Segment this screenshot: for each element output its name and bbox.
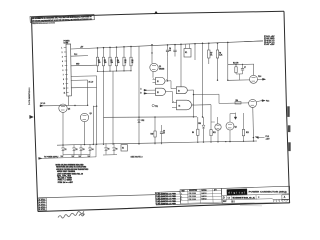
resistor R12 body	[242, 129, 244, 135]
svg-text:R8: R8	[219, 52, 221, 54]
svg-text:E2: E2	[157, 92, 159, 94]
zener D4 stub	[89, 145, 91, 148]
rev table row line 1	[38, 199, 46, 201]
resistor network bottom rail	[98, 70, 132, 73]
qty table column x200.0	[199, 189, 202, 203]
svg-text:POWER CONNECTOR (SEQ): POWER CONNECTOR (SEQ)	[249, 192, 287, 194]
qty table column x212.5	[212, 189, 215, 203]
gate E4 inputs	[172, 102, 177, 104]
junction dots y117	[138, 117, 139, 118]
rev table outline	[38, 198, 47, 211]
resistor R7 wires	[208, 43, 210, 50]
transistor Q2	[215, 124, 221, 130]
svg-text:CR2: CR2	[141, 120, 144, 122]
transistor Q3 collector	[229, 114, 231, 122]
resistor R11 wire	[210, 136, 212, 142]
svg-text:R11: R11	[213, 132, 216, 134]
svg-text:t: t	[239, 190, 240, 194]
resistor R11 body	[210, 130, 212, 136]
zone mark 1	[287, 106, 290, 117]
pencil faint line	[240, 205, 262, 207]
DEC digital logo	[227, 189, 247, 196]
top center fold mark	[154, 11, 157, 14]
parts table row 2	[156, 196, 181, 197]
qty table column x187.5	[187, 190, 190, 204]
left border fold mark	[30, 115, 34, 118]
resistor R14 inline	[235, 102, 241, 104]
resistor R13	[235, 65, 237, 67]
resistor R9 wires	[197, 117, 199, 129]
svg-text:DESCRIPTION: DESCRIPTION	[189, 190, 197, 192]
diode CR2 on x139	[138, 47, 140, 146]
supply arrow near Q3	[235, 113, 237, 117]
connector J1 pin 8	[65, 78, 68, 80]
qty table row line 3	[180, 199, 221, 200]
vertical drop x103	[103, 71, 105, 144]
transistor Q3 emitter	[229, 130, 231, 142]
ground rail junction x113	[112, 143, 113, 144]
wire to pin list	[244, 40, 263, 43]
svg-text:R2: R2	[104, 60, 106, 62]
svg-text:R9: R9	[192, 132, 194, 134]
qty table row line 4	[180, 202, 221, 203]
zener D3 stub	[80, 145, 82, 148]
ground rail junction x96.6	[96, 144, 97, 145]
parts table row 1	[156, 194, 181, 195]
node 385 arrow	[255, 137, 258, 139]
rc tie drop	[239, 74, 241, 80]
component box X1	[121, 145, 127, 151]
transistor Q5 emitter drop	[62, 112, 64, 144]
svg-text:R3: R3	[110, 60, 112, 62]
zone mark 2	[288, 125, 291, 132]
ground rail junction x161.5	[161, 142, 162, 143]
ground rail junction x203.5	[203, 141, 204, 142]
parts table inner column	[158, 192, 161, 205]
q5q6 link	[93, 105, 96, 107]
scale ruler ticks	[272, 200, 274, 203]
svg-text:QTY: QTY	[214, 190, 217, 192]
lower frame line	[38, 195, 155, 198]
junction dots on input wire	[74, 105, 75, 106]
connector J1 pin 10	[66, 87, 69, 89]
resistor R1 body	[96, 57, 98, 66]
transistor Q4 collector	[253, 64, 255, 75]
gate E2 input arrows	[144, 89, 147, 91]
svg-text:R1: R1	[98, 60, 100, 62]
transistor Q6 emitter drop	[84, 122, 86, 144]
svg-text:SEE NOTE 3: SEE NOTE 3	[131, 157, 143, 159]
junction on resistor rail	[103, 71, 104, 72]
loop bottom wire	[228, 79, 250, 81]
connector J1 pin 9	[66, 83, 69, 85]
wire pin6 drop	[96, 87, 98, 106]
wire pin5 horiz	[71, 79, 88, 81]
resistor R1 bottom wire	[97, 66, 99, 71]
wire pin2 stub	[71, 55, 88, 58]
transistor Q7 emitter drop	[252, 107, 255, 141]
transistor Q2 base wire	[211, 121, 215, 123]
svg-text:P2-07 +15V: P2-07 +15V	[264, 44, 276, 46]
border right	[284, 11, 290, 203]
zener D2 bottom	[73, 151, 75, 155]
svg-text:11: 11	[64, 92, 66, 94]
input arrow left	[40, 105, 43, 107]
svg-text:D-CS-5408732-0-1: D-CS-5408732-0-1	[28, 87, 31, 105]
svg-text:E3: E3	[178, 90, 180, 92]
resistor R3 bottom wire	[109, 66, 111, 71]
ground rail junction x211	[210, 141, 211, 142]
svg-text:R7: R7	[210, 52, 212, 54]
connector J1 pin 6	[65, 69, 68, 71]
drop x211 to R9	[210, 105, 212, 130]
diode D5	[105, 143, 107, 147]
junction on resistor rail	[130, 70, 131, 71]
svg-text:Q1: Q1	[159, 66, 161, 68]
Q1 emitter drop	[152, 72, 154, 78]
transistor Q5	[59, 104, 67, 112]
zener D4 symbol	[89, 148, 92, 151]
svg-text:D5: D5	[108, 149, 110, 151]
resistor R6 top wire	[130, 46, 132, 57]
drop x227 from bus	[227, 42, 229, 64]
capacitor C4 plates	[166, 49, 169, 51]
svg-text:PIN 14 = +5V: PIN 14 = +5V	[58, 181, 74, 184]
transistor Q1	[150, 63, 158, 71]
mid wire y117	[104, 116, 198, 119]
svg-text:10: 10	[163, 133, 165, 135]
wire pin4 drop	[96, 76, 98, 88]
svg-text:750: 750	[98, 62, 101, 64]
svg-text:R5: R5	[124, 60, 126, 62]
transistor Q2 emitter	[217, 130, 219, 141]
svg-text:7: 7	[63, 74, 64, 76]
relay K1 box	[184, 49, 191, 58]
svg-text:Q5: Q5	[68, 109, 70, 111]
vertical drop x202	[202, 43, 204, 117]
junction dot x217 y80	[217, 80, 218, 81]
resistor R12 wires	[243, 113, 245, 129]
gate E1 output	[165, 80, 171, 82]
title block outline	[221, 186, 289, 203]
svg-text:PWR CONN: PWR CONN	[189, 196, 196, 198]
resistor R5 body	[123, 57, 125, 66]
loop left wire	[227, 65, 229, 81]
gate E2 body	[156, 88, 166, 95]
svg-text:P1-2: P1-2	[74, 54, 77, 56]
ground rail	[57, 141, 257, 145]
svg-text:C6: C6	[163, 130, 165, 132]
ground rail junction x230	[229, 141, 230, 142]
+5V bus wire	[71, 41, 263, 49]
svg-text:TP1: TP1	[155, 106, 158, 108]
vertical drop x195	[194, 44, 196, 60]
resistor R2 bottom wire	[103, 66, 105, 71]
transistor Q7	[249, 99, 257, 107]
vertical drop x93	[92, 106, 94, 144]
resistor R7 body	[208, 50, 210, 58]
wire pin6 horiz	[71, 86, 97, 88]
svg-text:D3: D3	[83, 149, 85, 151]
svg-text:750: 750	[117, 62, 120, 64]
svg-text:9: 9	[63, 83, 64, 85]
resistor R4 bottom wire	[116, 66, 118, 71]
border bottom	[38, 203, 290, 212]
vertical drop x181	[180, 44, 182, 86]
svg-text:A: A	[284, 196, 286, 199]
connector J1 pin 4	[64, 60, 67, 62]
ground rail junction x218	[217, 141, 218, 142]
scale ruler baseline	[273, 198, 290, 200]
zener D1 stub	[62, 145, 64, 148]
zener D1 symbol	[62, 148, 65, 151]
resistor R3 body	[109, 57, 111, 66]
rc pair bottom tie	[236, 73, 243, 75]
gate E2 output	[166, 91, 173, 93]
cap drop to gate1 node	[167, 57, 169, 81]
svg-text:PWR CONN: PWR CONN	[189, 193, 196, 195]
svg-text:Q6: Q6	[90, 113, 92, 115]
lower rail segment	[103, 154, 117, 156]
svg-text:750: 750	[104, 62, 107, 64]
svg-text:C7: C7	[244, 67, 246, 69]
ground rail junction x243.5	[243, 141, 244, 142]
qty table header line	[180, 191, 221, 192]
svg-text:P2-8: P2-8	[258, 76, 261, 78]
drop x96 to arrow line	[95, 144, 97, 157]
rev table row line 3	[38, 204, 46, 206]
wire y94 branch	[194, 93, 220, 95]
svg-text:DIST: DIST	[223, 201, 227, 203]
resistor R3 top wire	[109, 47, 111, 57]
resistor R5 bottom wire	[123, 66, 125, 71]
resistor R9 body	[197, 129, 199, 135]
wire pin3 gnd	[71, 64, 96, 67]
qty table outline	[180, 188, 222, 204]
parts table row 3	[156, 199, 181, 200]
zone mark 3	[288, 142, 291, 151]
ground rail junction x197.8	[197, 142, 198, 143]
resistor R4 top wire	[116, 47, 118, 57]
svg-text:| | | | |: | | | | |	[231, 201, 235, 203]
svg-text:K1: K1	[185, 52, 187, 54]
svg-text:.01: .01	[169, 50, 171, 52]
note box N1 outline	[30, 14, 94, 22]
transistor Q4 output arrow	[258, 78, 263, 80]
qty table row line 1	[180, 193, 221, 194]
resistor R8 wires	[217, 43, 219, 50]
gate E3 output	[187, 89, 193, 91]
resistor R6 bottom wire	[130, 66, 132, 71]
ground rail junction x103.5	[103, 144, 104, 145]
zener D2 stub	[73, 145, 75, 148]
svg-text:D2: D2	[76, 149, 78, 151]
pencil note	[58, 211, 84, 218]
resistor R10 on x155	[154, 117, 156, 131]
resistor R8 body	[216, 50, 218, 58]
svg-text:R10: R10	[151, 134, 154, 136]
arrow to power supply	[39, 157, 42, 159]
ground rail junction x93.3	[93, 144, 94, 145]
capacitor C5 bottom	[174, 52, 176, 57]
gate E4 output	[192, 104, 212, 106]
border top	[32, 11, 285, 17]
junction on resistor rail	[116, 70, 117, 71]
parts table outline	[155, 191, 181, 205]
qty table row line 2	[180, 196, 221, 197]
resistor R4 body	[115, 57, 117, 66]
resistor R5 top wire	[123, 47, 125, 57]
gate E4 body	[177, 100, 192, 110]
gate E2 output drop	[172, 92, 174, 103]
test point TP1	[152, 104, 154, 106]
svg-text:Q3: Q3	[235, 126, 237, 128]
ground rail junction x139	[138, 143, 139, 144]
svg-text:2: 2	[62, 52, 63, 54]
gate E1 body	[156, 78, 166, 85]
gate E3 drop x193	[193, 90, 195, 117]
gate E2 inputs	[147, 89, 155, 91]
connector J1 body	[66, 44, 71, 96]
svg-text:P2-6: P2-6	[266, 100, 269, 102]
transistor Q6	[80, 113, 88, 121]
gate E3 body	[176, 87, 187, 94]
loop top wire	[228, 63, 254, 66]
capacitor C7	[242, 64, 244, 68]
capacitor C5 wire	[174, 45, 176, 50]
wire input to Q5	[43, 104, 87, 106]
vertical drop x113	[112, 71, 114, 144]
rev table row line 2	[38, 202, 46, 204]
svg-text:5408732-0-1: 5408732-0-1	[233, 196, 257, 199]
svg-text:10: 10	[63, 88, 65, 90]
svg-text:TO POWER SUPPLY: TO POWER SUPPLY	[44, 157, 58, 159]
ground rail junction x84.5	[84, 144, 85, 145]
rev box	[282, 195, 290, 200]
connector J1 pin 1	[64, 47, 67, 49]
drop x219	[218, 94, 220, 103]
svg-text:E1: E1	[157, 81, 159, 83]
connector J1 pin 5	[65, 65, 68, 67]
resistor R2 body	[102, 57, 104, 66]
ground rail junction x155	[154, 142, 155, 143]
title block line above	[156, 188, 221, 190]
connector J1 pin 2	[64, 51, 67, 53]
zener D3 bottom	[80, 151, 82, 155]
svg-text:CR3: CR3	[198, 123, 201, 125]
dist row line	[222, 199, 273, 200]
connector J1 pin 7	[65, 74, 68, 76]
zener row bottom rail	[63, 154, 90, 156]
transistor Q3	[226, 122, 234, 130]
parts table row 4	[156, 201, 181, 202]
transistor Q7 output arrow	[257, 101, 262, 102]
svg-text:D1: D1	[65, 149, 67, 151]
svg-text:R6: R6	[131, 60, 133, 62]
diode D6	[113, 143, 115, 147]
svg-text:D6: D6	[116, 149, 118, 151]
border left	[32, 17, 38, 211]
title block mid line	[222, 194, 290, 196]
gate E1 output drop	[170, 81, 172, 89]
diode CR3	[203, 117, 205, 125]
svg-text:R12: R12	[246, 132, 249, 134]
connector J1 bottom stub	[67, 96, 69, 105]
gate E1 inputs	[153, 78, 156, 80]
ground rail junction x63	[62, 144, 63, 145]
rev table row line 4	[38, 207, 46, 209]
svg-text:ITEM: ITEM	[181, 191, 184, 193]
svg-text:750: 750	[110, 62, 113, 64]
capacitor C4 bottom	[167, 52, 169, 57]
vertical drop x96	[96, 106, 98, 144]
capacitor C4 wire	[167, 45, 169, 50]
resistor R1 top wire	[97, 48, 99, 57]
wire pin5 drop	[87, 80, 89, 105]
svg-text:PWR CONN: PWR CONN	[189, 199, 196, 201]
zener D3 symbol	[80, 148, 83, 151]
zener D2 symbol	[73, 148, 76, 151]
capacitor C6	[161, 125, 163, 132]
connector J1 pin 11	[66, 92, 69, 94]
relay K1 drops	[185, 44, 187, 49]
wire pin4 horiz	[71, 75, 97, 78]
zener D4 bottom	[89, 151, 91, 155]
svg-text:POWER: POWER	[64, 41, 71, 43]
junction on resistor rail	[123, 70, 124, 71]
junction on resistor rail	[109, 70, 110, 71]
connector J1 pin 3	[64, 56, 67, 58]
capacitor C5 plates	[173, 49, 176, 51]
svg-text:D: D	[223, 197, 225, 200]
wire into lower q	[219, 102, 249, 105]
ground rail junction x225.8	[225, 141, 226, 142]
size code separators	[226, 196, 228, 200]
resistor R2 top wire	[103, 48, 105, 58]
junction on resistor rail	[97, 71, 98, 72]
svg-text:X1: X1	[122, 148, 124, 150]
resistor R6 body	[130, 57, 132, 66]
ground rail junction x253.5	[253, 140, 254, 141]
transistor Q4	[250, 75, 258, 83]
Q1 collector feed	[151, 45, 153, 64]
zener D1 bottom	[62, 151, 64, 155]
svg-text:5.6V: 5.6V	[79, 156, 82, 158]
